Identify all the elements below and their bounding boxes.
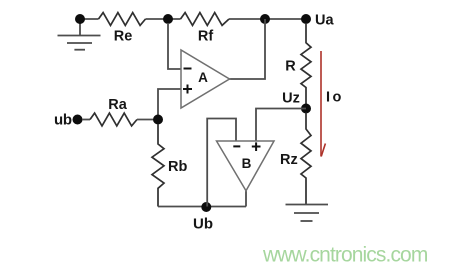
node Ra-Rb junction: [153, 115, 163, 125]
node feedback junction: [163, 14, 173, 24]
ground (bottom-right): [286, 205, 329, 222]
svg-text:Uz: Uz: [282, 91, 300, 107]
resistor Re: [99, 13, 146, 45]
svg-text:A: A: [198, 70, 208, 85]
svg-text:ub: ub: [54, 112, 72, 129]
current arrow Io: [321, 51, 325, 157]
wire A output: [230, 19, 266, 79]
svg-text:Rb: Rb: [168, 159, 187, 175]
resistor Ra: [90, 97, 137, 126]
resistor Rz: [280, 113, 311, 205]
op-amp A: [181, 50, 230, 108]
svg-text:Re: Re: [114, 29, 133, 45]
node Ua: [301, 13, 334, 29]
svg-text:Ub: Ub: [193, 216, 213, 233]
wire B feedback (inverting input to output node): [207, 119, 236, 207]
svg-text:www.cntronics.com: www.cntronics.com: [262, 244, 428, 267]
svg-text:Rz: Rz: [280, 152, 298, 168]
resistor Rb: [152, 124, 187, 207]
op-amp B: [217, 141, 275, 191]
ground (top-left): [58, 22, 101, 50]
wire top rail: [80, 18, 306, 20]
node A output top junction: [260, 14, 270, 24]
wire Ra to junction: [137, 119, 158, 121]
svg-text:Rf: Rf: [198, 29, 213, 45]
resistor R: [285, 23, 311, 108]
svg-text:R: R: [285, 59, 296, 75]
wire ub to Ra: [82, 119, 90, 121]
wire bottom rail: [158, 206, 246, 208]
wire inverting input of A: [168, 23, 181, 69]
node top-left: [75, 14, 85, 24]
svg-text:Io: Io: [326, 90, 344, 106]
svg-text:Ra: Ra: [108, 97, 127, 113]
resistor Rf: [181, 13, 230, 45]
wire B noninverting input to Uz: [256, 109, 306, 142]
wire noninverting input of A: [158, 89, 181, 120]
node Uz: [282, 91, 311, 114]
wire B output: [245, 191, 247, 207]
node ub input: [54, 112, 83, 129]
svg-text:Ua: Ua: [315, 13, 334, 29]
node Ub: [193, 202, 213, 233]
svg-text:B: B: [242, 156, 252, 171]
